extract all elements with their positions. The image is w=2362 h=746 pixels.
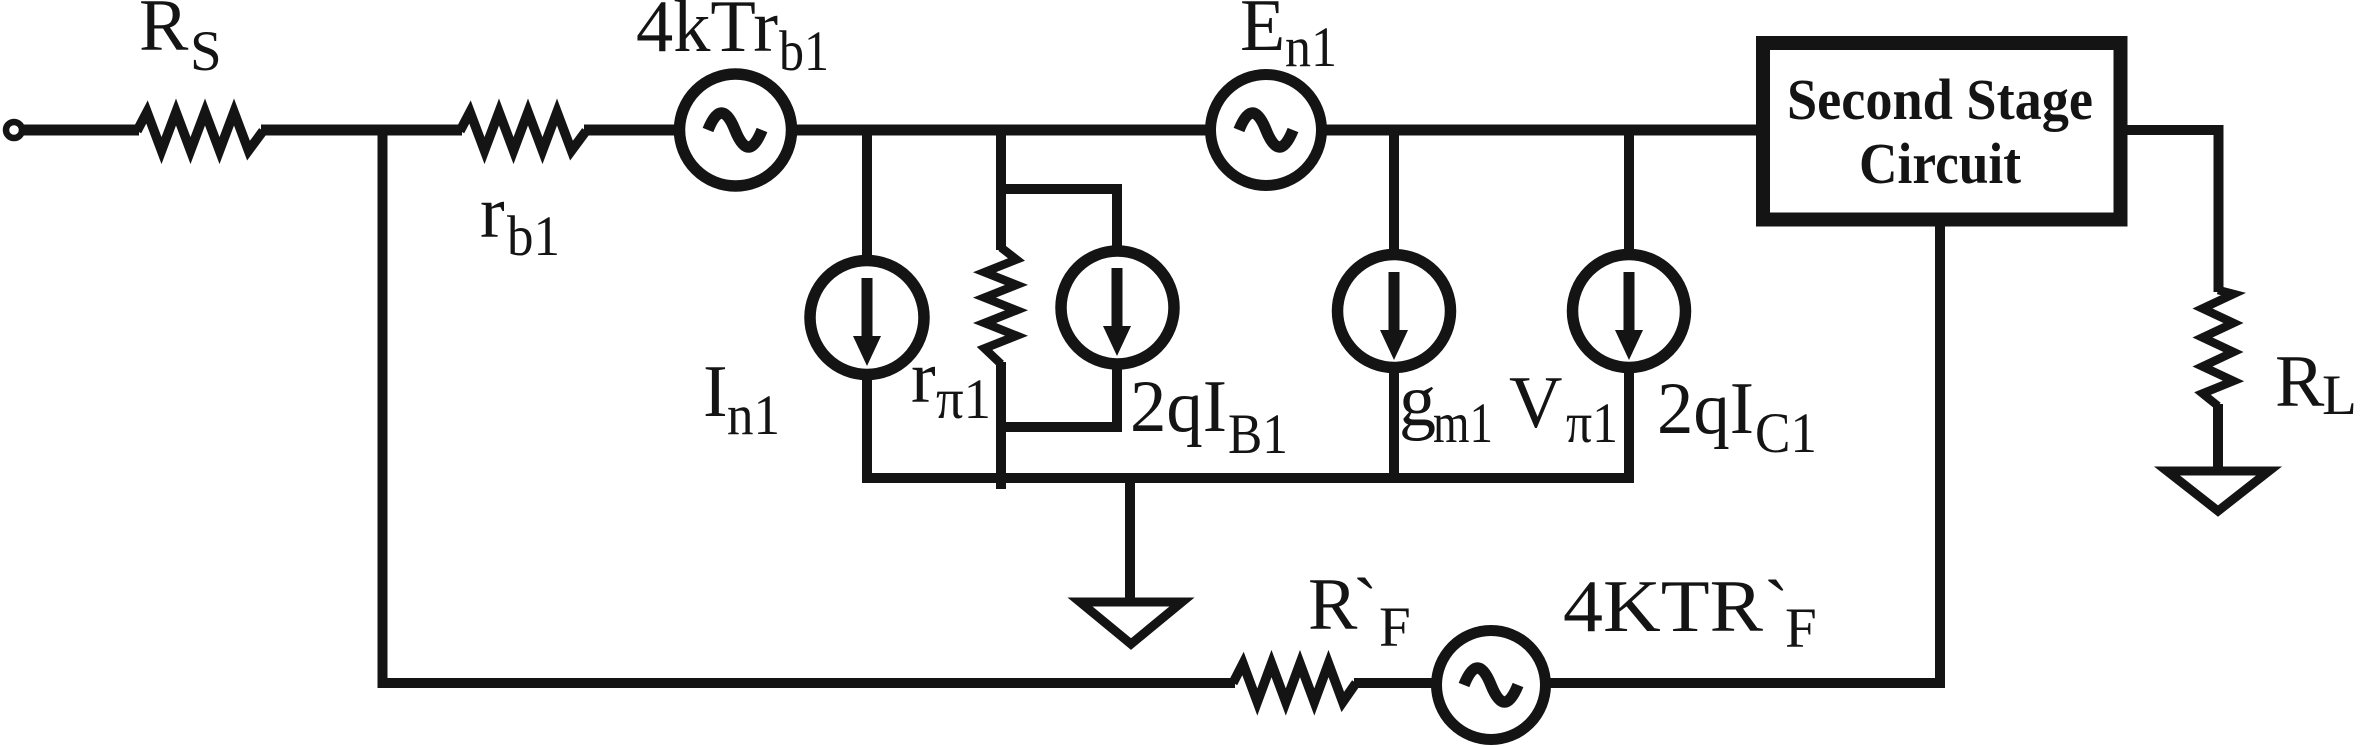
resistor RL [2203,290,2234,406]
wire second stage to RL corner [2122,130,2219,292]
wire rpi1 branch upper [996,130,1006,250]
svg-text:E: E [1240,0,1285,67]
wire RF to 4KTRF source [1354,678,1450,688]
wire In1 branch [862,130,872,480]
svg-text:r: r [911,337,936,419]
wire rpi1 branch lower [996,362,1006,489]
svg-text:n1: n1 [727,384,780,447]
svg-text:π1: π1 [1566,392,1618,455]
voltage source 4kTrb1 [680,74,792,186]
svg-text:Second Stage: Second Stage [1787,67,2093,132]
svg-text:Circuit: Circuit [1859,131,2022,196]
svg-text:L: L [2322,364,2357,427]
wire RS to node A [261,125,462,136]
wire input to RS [20,125,139,136]
svg-text:2qI: 2qI [1657,368,1754,450]
wire 2qIC1 branch [1624,130,1634,480]
svg-text:R: R [139,0,189,67]
svg-text:2qI: 2qI [1130,366,1227,448]
svg-text:n1: n1 [1285,16,1337,79]
svg-text:π1: π1 [936,368,991,431]
ground middle [1080,602,1182,644]
svg-text:I: I [703,351,728,433]
svg-text:b1: b1 [507,205,560,268]
svg-text:b1: b1 [779,20,829,83]
svg-text:g: g [1399,360,1436,442]
svg-text:B1: B1 [1228,403,1288,466]
wire node A feedback vertical [378,130,388,688]
svg-text:4KTR: 4KTR [1563,566,1764,648]
svg-text:F: F [1785,597,1817,660]
current source 2qIB1 [1061,251,1174,364]
svg-text:S: S [190,20,222,83]
current source 2qIC1 [1573,255,1686,368]
input terminal [6,122,22,138]
svg-text:R: R [2275,341,2325,423]
wire rb1 to 4kTrb1 source [584,125,690,136]
svg-text:r: r [480,172,505,254]
second stage box [1763,43,2121,220]
wire bottom feedback left [378,678,1236,688]
wire jog bottom 2qIB1 [1001,310,1117,427]
svg-text:m1: m1 [1433,392,1493,455]
svg-text:R: R [1308,564,1358,646]
svg-text:V: V [1509,362,1562,444]
svg-text:F: F [1379,596,1411,659]
wire ground stem [1125,478,1135,599]
resistor RS [137,112,263,151]
wire 4kTrb1 to En1 [790,125,1220,136]
wire second stage bottom stem [1935,224,1945,688]
current source In1 [810,261,924,375]
wire bottom rail [862,473,1634,483]
ground RL [2167,471,2269,511]
wire 4KTRF source to stem [1535,678,1945,688]
svg-text:`: ` [1353,564,1378,646]
resistor RF [1233,664,1356,703]
voltage source 4KTRF [1437,631,1546,740]
voltage source En1 [1211,75,1322,186]
wire jog top 2qIB1 [1001,189,1117,310]
wire gm1Vpi1 branch [1389,130,1399,480]
svg-text:C1: C1 [1755,402,1817,465]
svg-text:4kTr: 4kTr [636,0,778,68]
current source gm1Vpi1 [1338,255,1451,368]
resistor rb1 [460,112,586,151]
resistor rpi1 [985,248,1017,365]
wire RL to ground [2213,404,2223,470]
wire En1 to second stage [1310,125,1760,136]
